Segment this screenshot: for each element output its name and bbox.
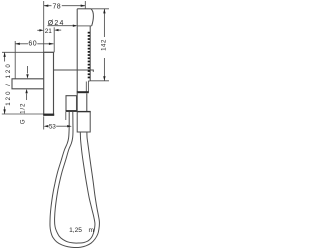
wall outlet nut bottom thick edge (66, 110, 78, 112)
dimension 60 left arrowhead (15, 43, 20, 45)
svg-text:53: 53 (49, 123, 56, 130)
svg-text:120 / 120: 120 / 120 (5, 62, 12, 105)
G 1/2 top leader arrow (pointing down to pipe) (27, 66, 29, 74)
svg-text:21: 21 (45, 28, 52, 35)
baton end inner line (85, 82, 87, 93)
dimension 53 left arrowhead (44, 125, 49, 127)
extension line plate front (x=54.2) (53, 27, 55, 52)
label Ø24 arrowhead (73, 25, 77, 27)
hose cone housing below handshower (77, 112, 90, 132)
svg-text:m: m (88, 227, 94, 234)
extension line top (y=52.3 plate top) (2, 51, 54, 53)
wall plate (side view) (44, 52, 54, 115)
dimension 142 line (103, 9, 105, 37)
handshower hose nut (76, 92, 78, 112)
extension line bottom (y=114) (2, 113, 43, 115)
hose outer edge (shower hose 1.25 m loop) (50, 112, 99, 248)
extension line pipe end (x=15.2) (14, 41, 16, 79)
dimension 78 left arrowhead (44, 5, 49, 7)
dimension 78 right arrowhead (81, 5, 86, 7)
svg-text:78: 78 (53, 3, 61, 10)
dimension 21 tail line (59, 29, 62, 31)
dimension 142 bottom arrowhead (103, 76, 105, 81)
dimension 21 left tail line (37, 29, 39, 31)
svg-text:142: 142 (101, 39, 108, 51)
handshower baton top edge (77, 8, 91, 10)
dimension 53 line tail and right arrowhead (56, 125, 68, 127)
baton bottom thick edge (77, 91, 89, 93)
wall outlet hose nut (66, 96, 77, 111)
supply pipe (G 1/2 nipple) (12, 79, 44, 89)
holder arm top line with clip tip (54, 70, 94, 72)
handshower grip right edge (89, 26, 91, 81)
handshower head/grip junction line (77, 25, 92, 27)
dimension 120/120 top arrowhead (3, 52, 5, 57)
grip ribs (88, 32, 90, 78)
dimension 78 line (44, 5, 52, 7)
dimension 60 right arrowhead (49, 43, 54, 45)
extension line handle top (y=8.8) (91, 8, 109, 10)
extension line right for 78 (x=85.3) (84, 1, 86, 9)
svg-text:G: G (19, 119, 26, 124)
dimension 120/120 vertical line (4, 52, 6, 61)
hose collar stub at wall nut (65, 112, 67, 120)
dimension 21 left arrowhead (39, 29, 43, 31)
hose inner edge (55, 112, 95, 243)
handshower baton left edge (76, 9, 78, 92)
extension line left (wall plane, x=43.7) (43, 1, 45, 52)
svg-text:1/2: 1/2 (19, 103, 26, 114)
extension line handle bottom (y=80.8) (90, 80, 109, 82)
dimension 60 line (15, 43, 28, 45)
extension line below plate (x=43.7) (43, 116, 45, 129)
label Ø24 leader underline (48, 25, 77, 27)
dimension 21 right arrowhead (54, 29, 58, 31)
svg-text:1,25: 1,25 (69, 227, 82, 234)
baton end step (88, 81, 90, 92)
dimension 142 top arrowhead (103, 9, 105, 14)
handshower head right profile (91, 9, 93, 26)
G 1/2 bottom leader arrow (pointing up to pipe) (25, 89, 27, 94)
dimension 120/120 bottom arrowhead (3, 109, 5, 114)
handshower nut bottom edge (77, 111, 91, 113)
wall plate thick bottom edge (43, 114, 54, 116)
svg-text:60: 60 (28, 41, 37, 48)
svg-text:Ø24: Ø24 (48, 20, 65, 27)
